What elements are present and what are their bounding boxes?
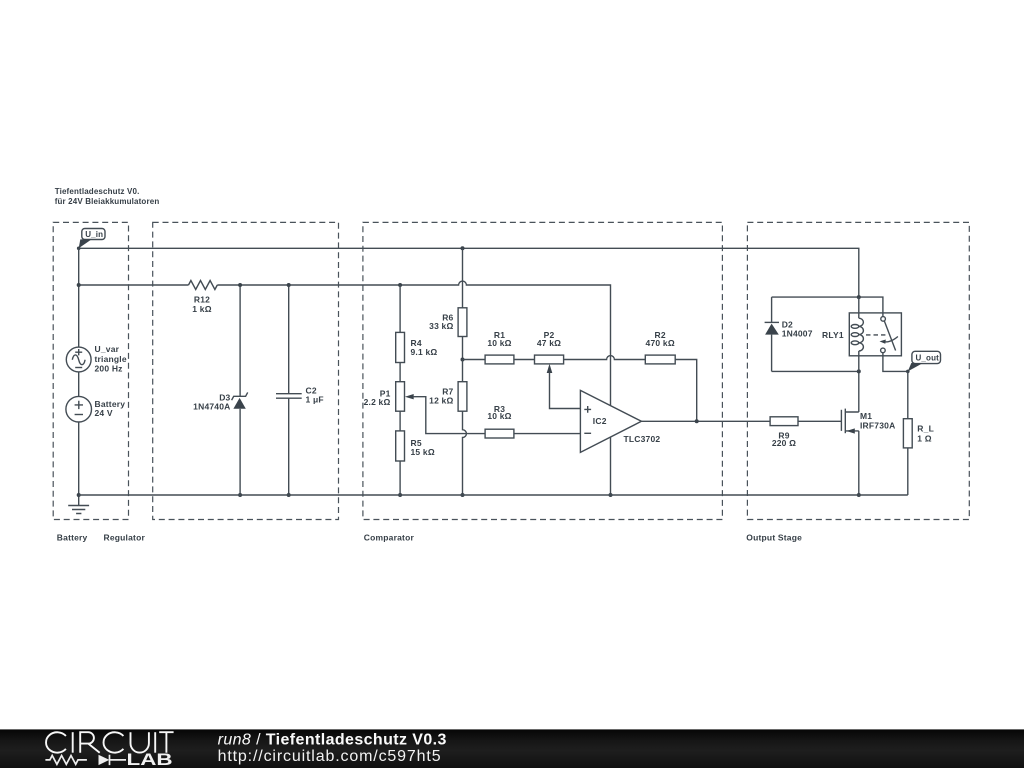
wire mid rail to R1 [463, 359, 486, 361]
node junction ground rail / R7 chain [461, 493, 465, 497]
svg-text:200 Hz: 200 Hz [95, 364, 123, 374]
ground [68, 495, 89, 514]
node junction battery column / second rail [77, 283, 81, 287]
resistor R4 [396, 332, 438, 362]
wire P2 wiper to op-amp non-inverting input [550, 373, 581, 409]
wire R_L to ground rail [907, 448, 909, 495]
node junction ground rail / D3 [238, 493, 242, 497]
svg-text:run8 / Tiefentladeschutz V0.3: run8 / Tiefentladeschutz V0.3 [218, 731, 447, 748]
resistor R6 [429, 308, 467, 337]
wire R6 to mid rail [462, 337, 464, 360]
transistor M1 IRF730A [841, 409, 895, 434]
svg-text:IC2: IC2 [593, 416, 607, 426]
wire rail to R4 [399, 285, 401, 332]
svg-text:TLC3702: TLC3702 [624, 434, 661, 444]
node junction ground rail / M1 source [857, 493, 861, 497]
resistor R5 [396, 431, 435, 461]
svg-text:RLY1: RLY1 [822, 330, 844, 340]
wire op-amp V- to ground rail [610, 437, 612, 495]
resistor R1 [485, 330, 514, 364]
wire relay top horizontal [772, 297, 883, 317]
diode D2 1N4007 [765, 297, 813, 371]
wire second rail left [79, 284, 189, 286]
wire R4 to P1 [399, 363, 401, 382]
svg-text:Battery: Battery [57, 533, 88, 543]
battery section dashed box [53, 222, 128, 542]
svg-text:24 V: 24 V [95, 408, 113, 418]
resistor R_L [903, 419, 934, 448]
wire op-amp output to R9 [641, 420, 770, 422]
wire P1 to R5 [399, 411, 401, 431]
svg-text:1 kΩ: 1 kΩ [192, 304, 211, 314]
wire P2 to R2 with hop [564, 356, 646, 360]
node junction ground rail / R5 [398, 493, 402, 497]
node junction relay coil top [857, 295, 861, 299]
svg-text:1N4740A: 1N4740A [193, 401, 230, 411]
svg-text:Comparator: Comparator [364, 533, 415, 543]
wire second rail right of R12 with hop, down to op-amp V+ [217, 281, 610, 406]
svg-text:10 kΩ: 10 kΩ [487, 411, 511, 421]
wire battery column top [78, 248, 80, 347]
node junction ground rail [77, 493, 81, 497]
wire D3 top lead [239, 285, 241, 396]
node junction mid rail / R6 / R7 [461, 358, 465, 362]
svg-text:Output Stage: Output Stage [746, 533, 802, 543]
wire P1 wiper to R3 [413, 397, 485, 434]
wire switch to U_out node [883, 353, 908, 372]
capacitor C2 [276, 386, 324, 405]
wire M1 source to ground rail [858, 431, 860, 495]
node junction output / R2 feedback [695, 419, 699, 423]
svg-text:U_in: U_in [85, 230, 103, 239]
relay RLY1 [822, 297, 901, 371]
svg-text:Regulator: Regulator [104, 533, 146, 543]
svg-text:http://circuitlab.com/c597ht5: http://circuitlab.com/c597ht5 [218, 748, 442, 765]
wire R3 to op-amp inverting input [514, 433, 581, 435]
resistor R9 [770, 417, 798, 448]
node junction rail / R4 chain [398, 283, 402, 287]
svg-text:33 kΩ: 33 kΩ [429, 321, 453, 331]
CircuitLab logo [46, 732, 174, 753]
svg-text:R_L: R_L [917, 424, 934, 434]
svg-text:220 Ω: 220 Ω [772, 438, 796, 448]
node junction rail / C2 [287, 283, 291, 287]
node junction relay coil bottom / M1 drain [857, 369, 861, 373]
regulator section dashed box [104, 222, 339, 542]
svg-text:LAB: LAB [127, 751, 173, 768]
comparator section dashed box [363, 222, 723, 542]
resistor R2 [645, 330, 675, 364]
node U_in flag [79, 229, 105, 249]
wire mid rail to R7 [462, 360, 464, 382]
svg-text:für 24V Bleiakkumulatoren: für 24V Bleiakkumulatoren [55, 197, 160, 206]
svg-text:U_out: U_out [916, 354, 940, 363]
source Battery 24V [66, 396, 125, 422]
title [55, 187, 160, 206]
node U_out flag [908, 351, 941, 371]
wire R1 to P2 [514, 359, 535, 361]
op-amp IC2 TLC3702 [580, 390, 660, 452]
potentiometer P1 [364, 382, 414, 412]
footer bar [0, 729, 1024, 768]
node junction ground rail / C2 [287, 493, 291, 497]
output stage section dashed box [746, 222, 969, 542]
wire R9 to M1 gate [798, 420, 841, 422]
svg-text:1 Ω: 1 Ω [917, 434, 932, 444]
wire relay bottom horizontal [772, 370, 859, 372]
svg-text:Tiefentladeschutz V0.: Tiefentladeschutz V0. [55, 187, 140, 196]
wire M1 drain to relay node [858, 371, 860, 412]
svg-text:triangle: triangle [95, 354, 127, 364]
wire top rail U_in to relay [79, 248, 859, 297]
node junction ground rail / op-amp V- [609, 493, 613, 497]
wire D3 bottom lead [239, 409, 241, 495]
wire between sources [78, 372, 80, 397]
wire C2 top lead [288, 285, 290, 394]
wire U_out to R_L [907, 371, 909, 418]
wire ground rail [79, 494, 908, 496]
source U_var (triangle 200 Hz) [66, 344, 127, 374]
svg-text:1 μF: 1 μF [306, 394, 324, 404]
resistor R12 [189, 281, 218, 315]
svg-text:M1: M1 [860, 411, 872, 421]
svg-text:12 kΩ: 12 kΩ [429, 396, 453, 406]
wire battery to ground rail [78, 422, 80, 495]
potentiometer P2 [535, 330, 564, 373]
node U_in junction [77, 247, 81, 251]
diode D3 1N4740A (zener) [193, 392, 248, 411]
wire top rail to R6 [462, 248, 464, 307]
svg-text:U_var: U_var [95, 344, 120, 354]
svg-text:470 kΩ: 470 kΩ [646, 338, 675, 348]
CircuitLab logo resistor-diode [45, 755, 126, 765]
wire R7 to ground rail with hop [463, 411, 467, 495]
resistor R7 [429, 382, 467, 412]
svg-text:IRF730A: IRF730A [860, 421, 895, 431]
node junction top rail / R6 [461, 246, 465, 250]
svg-text:10 kΩ: 10 kΩ [487, 338, 511, 348]
resistor R3 [485, 404, 514, 438]
node U_out junction [906, 370, 910, 374]
node junction rail / D3 [238, 283, 242, 287]
wire C2 bottom lead [288, 398, 290, 495]
svg-text:1N4007: 1N4007 [782, 328, 813, 338]
svg-text:15 kΩ: 15 kΩ [411, 447, 435, 457]
svg-text:9.1 kΩ: 9.1 kΩ [411, 347, 438, 357]
svg-text:47 kΩ: 47 kΩ [537, 338, 561, 348]
wire R2 to output node [675, 360, 697, 422]
svg-text:2.2 kΩ: 2.2 kΩ [364, 397, 391, 407]
wire R5 to ground rail [399, 461, 401, 495]
